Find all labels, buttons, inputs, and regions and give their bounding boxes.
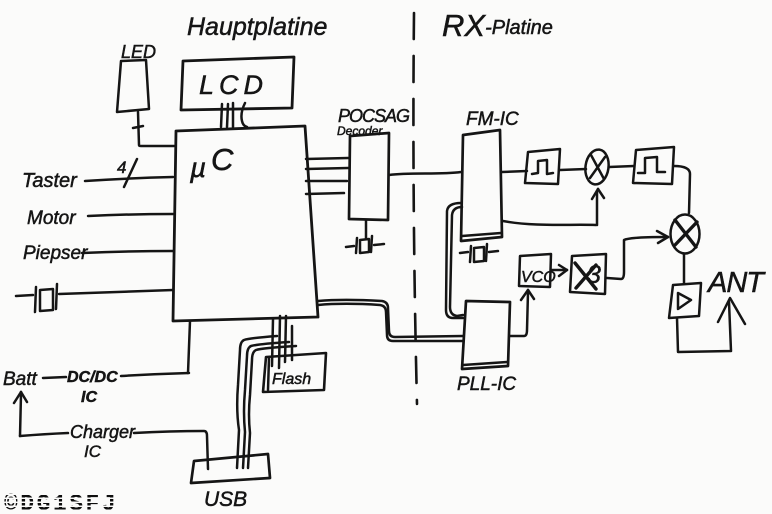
svg-text:Piepser: Piepser [23, 243, 88, 264]
svg-text:Flash: Flash [272, 371, 311, 388]
svg-text:ANT: ANT [706, 267, 766, 299]
svg-text:LCD: LCD [199, 70, 268, 100]
svg-text:Hauptplatine: Hauptplatine [187, 13, 327, 41]
svg-text:µ: µ [189, 152, 206, 183]
svg-text:FM-IC: FM-IC [466, 109, 519, 130]
svg-text:IC: IC [81, 389, 97, 406]
svg-text:Motor: Motor [27, 208, 76, 229]
svg-text:3: 3 [587, 261, 601, 289]
svg-text:Charger: Charger [70, 422, 136, 442]
svg-text:POCSAG: POCSAG [338, 106, 410, 126]
svg-text:Decoder: Decoder [337, 124, 383, 138]
svg-text:USB: USB [204, 488, 247, 511]
svg-text:Batt: Batt [3, 369, 38, 390]
svg-text:PLL-IC: PLL-IC [457, 374, 516, 395]
svg-text:IC: IC [84, 442, 102, 461]
svg-text:4: 4 [117, 158, 126, 177]
svg-text:VCO: VCO [521, 269, 556, 286]
svg-text:LED: LED [121, 42, 156, 62]
svg-text:DC/DC: DC/DC [67, 369, 118, 386]
svg-text:C: C [211, 142, 234, 177]
svg-text:Taster: Taster [22, 170, 78, 192]
